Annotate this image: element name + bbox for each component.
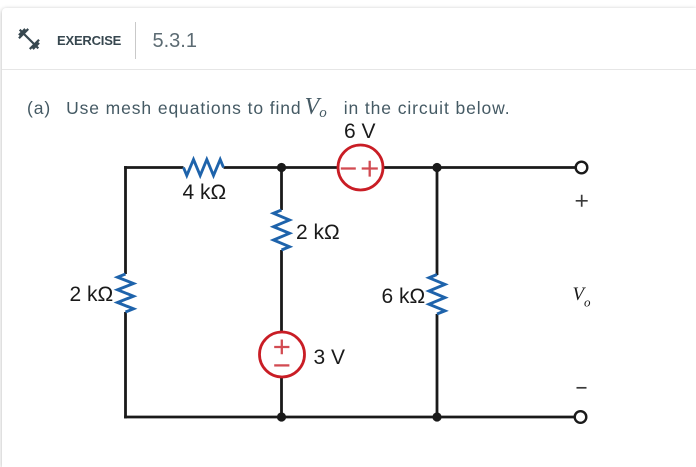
exercise number 5.3.1: [153, 30, 197, 53]
wire: right rail upper: [436, 168, 439, 276]
wire: top middle/right segment: [224, 166, 576, 169]
node dot: bottom right: [432, 412, 441, 421]
svg-text:2 kΩ: 2 kΩ: [70, 283, 114, 306]
resistor 4 kOhm: [184, 160, 224, 176]
open terminal bottom: [575, 411, 587, 423]
resistor 2 kOhm (left branch): [118, 274, 134, 312]
wire: left rail lower: [124, 312, 127, 418]
svg-text:6 kΩ: 6 kΩ: [382, 285, 426, 308]
wire: middle rail lower: [280, 250, 283, 417]
header bottom border: [2, 69, 696, 70]
wire: middle rail upper: [280, 168, 283, 211]
voltage source 3V circle: [260, 332, 305, 377]
node dot: bottom middle: [277, 412, 286, 421]
output minus sign: [577, 387, 587, 389]
voltage source 6V circle: [338, 145, 383, 190]
svg-text:2 kΩ: 2 kΩ: [296, 221, 340, 244]
header vertical divider: [135, 22, 136, 59]
svg-text:6 V: 6 V: [344, 120, 376, 143]
resistor 2 kOhm (middle branch): [274, 210, 290, 250]
node dot: top middle: [277, 163, 286, 172]
output plus sign: [576, 195, 588, 207]
wire: right rail lower: [436, 314, 439, 417]
6V source minus sign: [341, 167, 356, 169]
6V source plus sign: [362, 161, 378, 177]
wire: top-left segment: [124, 166, 183, 169]
3V source minus sign: [274, 364, 289, 366]
resistor 6 kOhm (right branch): [429, 275, 445, 315]
svg-text:4 kΩ: 4 kΩ: [183, 181, 227, 204]
wire: bottom rail: [124, 416, 575, 419]
EXERCISE label: [57, 33, 121, 48]
wire: left rail upper: [124, 166, 127, 274]
svg-text:o: o: [584, 295, 591, 310]
3V source plus sign: [274, 340, 289, 355]
svg-text:3 V: 3 V: [314, 346, 346, 369]
open terminal top: [576, 162, 588, 174]
problem sentence: [27, 98, 511, 118]
node dot: top right: [432, 163, 441, 172]
exercise dumbbell icon: [16, 26, 42, 52]
